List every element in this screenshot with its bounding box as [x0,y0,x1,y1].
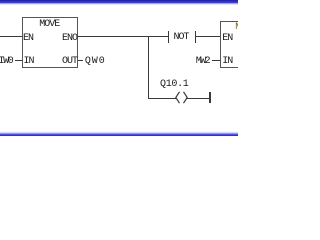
bottom window border (blue) [0,131,238,132]
pin EN [23,34,33,44]
pin IN (right block) [222,57,232,67]
wire: ENO to NOT contact [78,36,169,37]
operand Q10.1 [160,80,189,90]
node: branch end tick [209,92,210,103]
coil Q10.1 (parentheses) [174,91,189,105]
pin ENO [62,34,77,44]
operand MW2 [196,57,209,67]
operand QW0 [85,57,106,67]
contact NOT left bar [168,31,169,43]
label MOVE (block title) [39,20,59,30]
wire: branch horizontal to coil [148,98,176,99]
function block U2 (clipped at right edge) [220,21,246,68]
wire: left rail to EN of MOVE [0,36,22,37]
label (clipped block title, dark yellow) [235,23,245,33]
function block U1 MOVE [22,17,79,68]
wire: branch vertical from main rung [148,36,149,99]
pin IN [24,57,34,67]
wire: IW0 stub to IN [15,60,22,61]
label NOT [174,33,189,43]
contact NOT right bar [195,31,196,43]
top window border (blue) [0,0,238,1]
wire: OUT stub to QW0 [78,60,83,61]
pin EN (right block) [222,34,232,44]
wire: coil to end [187,98,210,99]
operand IW0 [0,57,12,67]
pin OUT [62,57,77,67]
wire: NOT to EN of right block [196,36,221,37]
wire: MW2 stub to IN [212,60,220,61]
